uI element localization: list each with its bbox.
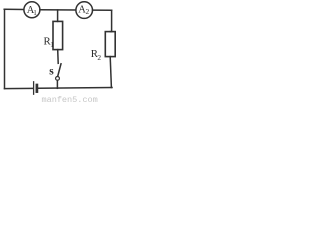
- wire right side upper: [110, 10, 111, 31]
- wire top-right segment: [93, 9, 112, 11]
- svg-text:1: 1: [33, 9, 37, 17]
- wire left side: [4, 9, 6, 88]
- svg-text:2: 2: [97, 53, 101, 62]
- label R1: [44, 36, 55, 49]
- wire right side lower: [110, 57, 111, 88]
- ammeter A2: [76, 2, 93, 19]
- wire top-left segment: [4, 8, 23, 10]
- wire bottom left segment: [5, 87, 33, 89]
- ammeter A1: [24, 2, 40, 18]
- wire below R1: [57, 50, 60, 64]
- label R2: [91, 48, 102, 62]
- svg-text:2: 2: [86, 7, 90, 16]
- svg-text:manfen5.com: manfen5.com: [42, 95, 98, 104]
- svg-text:s: s: [49, 65, 54, 77]
- wire bottom right segment: [38, 87, 112, 90]
- resistor R1: [53, 21, 63, 49]
- svg-text:1: 1: [50, 41, 54, 49]
- switch S blade: [58, 64, 61, 76]
- battery cell short thick plate: [36, 85, 39, 92]
- switch S pivot contact: [56, 77, 60, 81]
- wire top middle segment: [40, 9, 76, 11]
- resistor R2: [105, 32, 115, 57]
- node junction on top wire: [57, 10, 59, 21]
- battery cell long plate: [33, 82, 35, 94]
- wire below switch: [56, 80, 58, 88]
